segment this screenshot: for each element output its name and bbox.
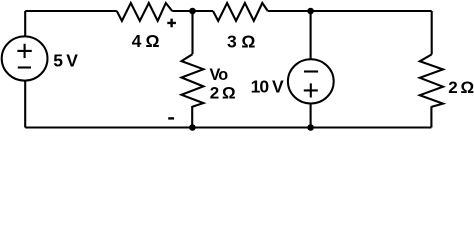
node B junction dot (top middle): [189, 8, 196, 15]
svg-text:10 V: 10 V: [251, 76, 284, 96]
V1 plus sign: [17, 44, 31, 58]
polarity + for Vo: [167, 19, 176, 28]
junction dot bottom right-middle: [307, 124, 314, 131]
svg-text:5 V: 5 V: [53, 51, 78, 71]
resistor R3 2 ohm (Vo) vertical zigzag: [182, 54, 204, 106]
V1 minus sign: [18, 66, 31, 68]
polarity - for Vo: [168, 117, 174, 119]
wire bottom rail: [25, 126, 431, 128]
V2 minus sign: [304, 70, 318, 72]
wire left branch below source V1: [24, 81, 26, 128]
V2 plus sign: [304, 83, 318, 97]
wire top-left segment (corner to R1): [25, 10, 117, 12]
wire middle branch top (node B to R3): [191, 11, 193, 54]
wire from R2 to top-right corner: [268, 10, 432, 12]
wire middle branch bottom (R3 to bottom rail): [191, 106, 193, 128]
wire V2 branch bottom (source to bottom rail): [310, 104, 312, 128]
svg-text:Vo: Vo: [210, 66, 229, 84]
svg-text:3 Ω: 3 Ω: [227, 31, 255, 51]
svg-text:2 Ω: 2 Ω: [210, 84, 235, 103]
voltage source V2 10V circle: [288, 59, 334, 103]
wire right branch top: [431, 11, 433, 54]
resistor R1 4 ohm zigzag: [117, 3, 172, 21]
wire left branch above source V1: [24, 11, 26, 36]
wire between R1 and R2 (node B): [172, 10, 213, 12]
wire right branch bottom: [430, 106, 432, 127]
resistor R4 2 ohm right vertical zigzag: [420, 54, 443, 107]
svg-text:2 Ω: 2 Ω: [448, 78, 473, 97]
node C junction dot (top right-middle): [307, 8, 314, 15]
voltage source V1 5V circle: [2, 36, 48, 80]
resistor R2 3 ohm zigzag: [213, 3, 268, 21]
junction dot bottom middle: [189, 124, 196, 131]
wire V2 branch top (node C to source): [310, 11, 312, 59]
svg-text:4 Ω: 4 Ω: [132, 31, 160, 51]
